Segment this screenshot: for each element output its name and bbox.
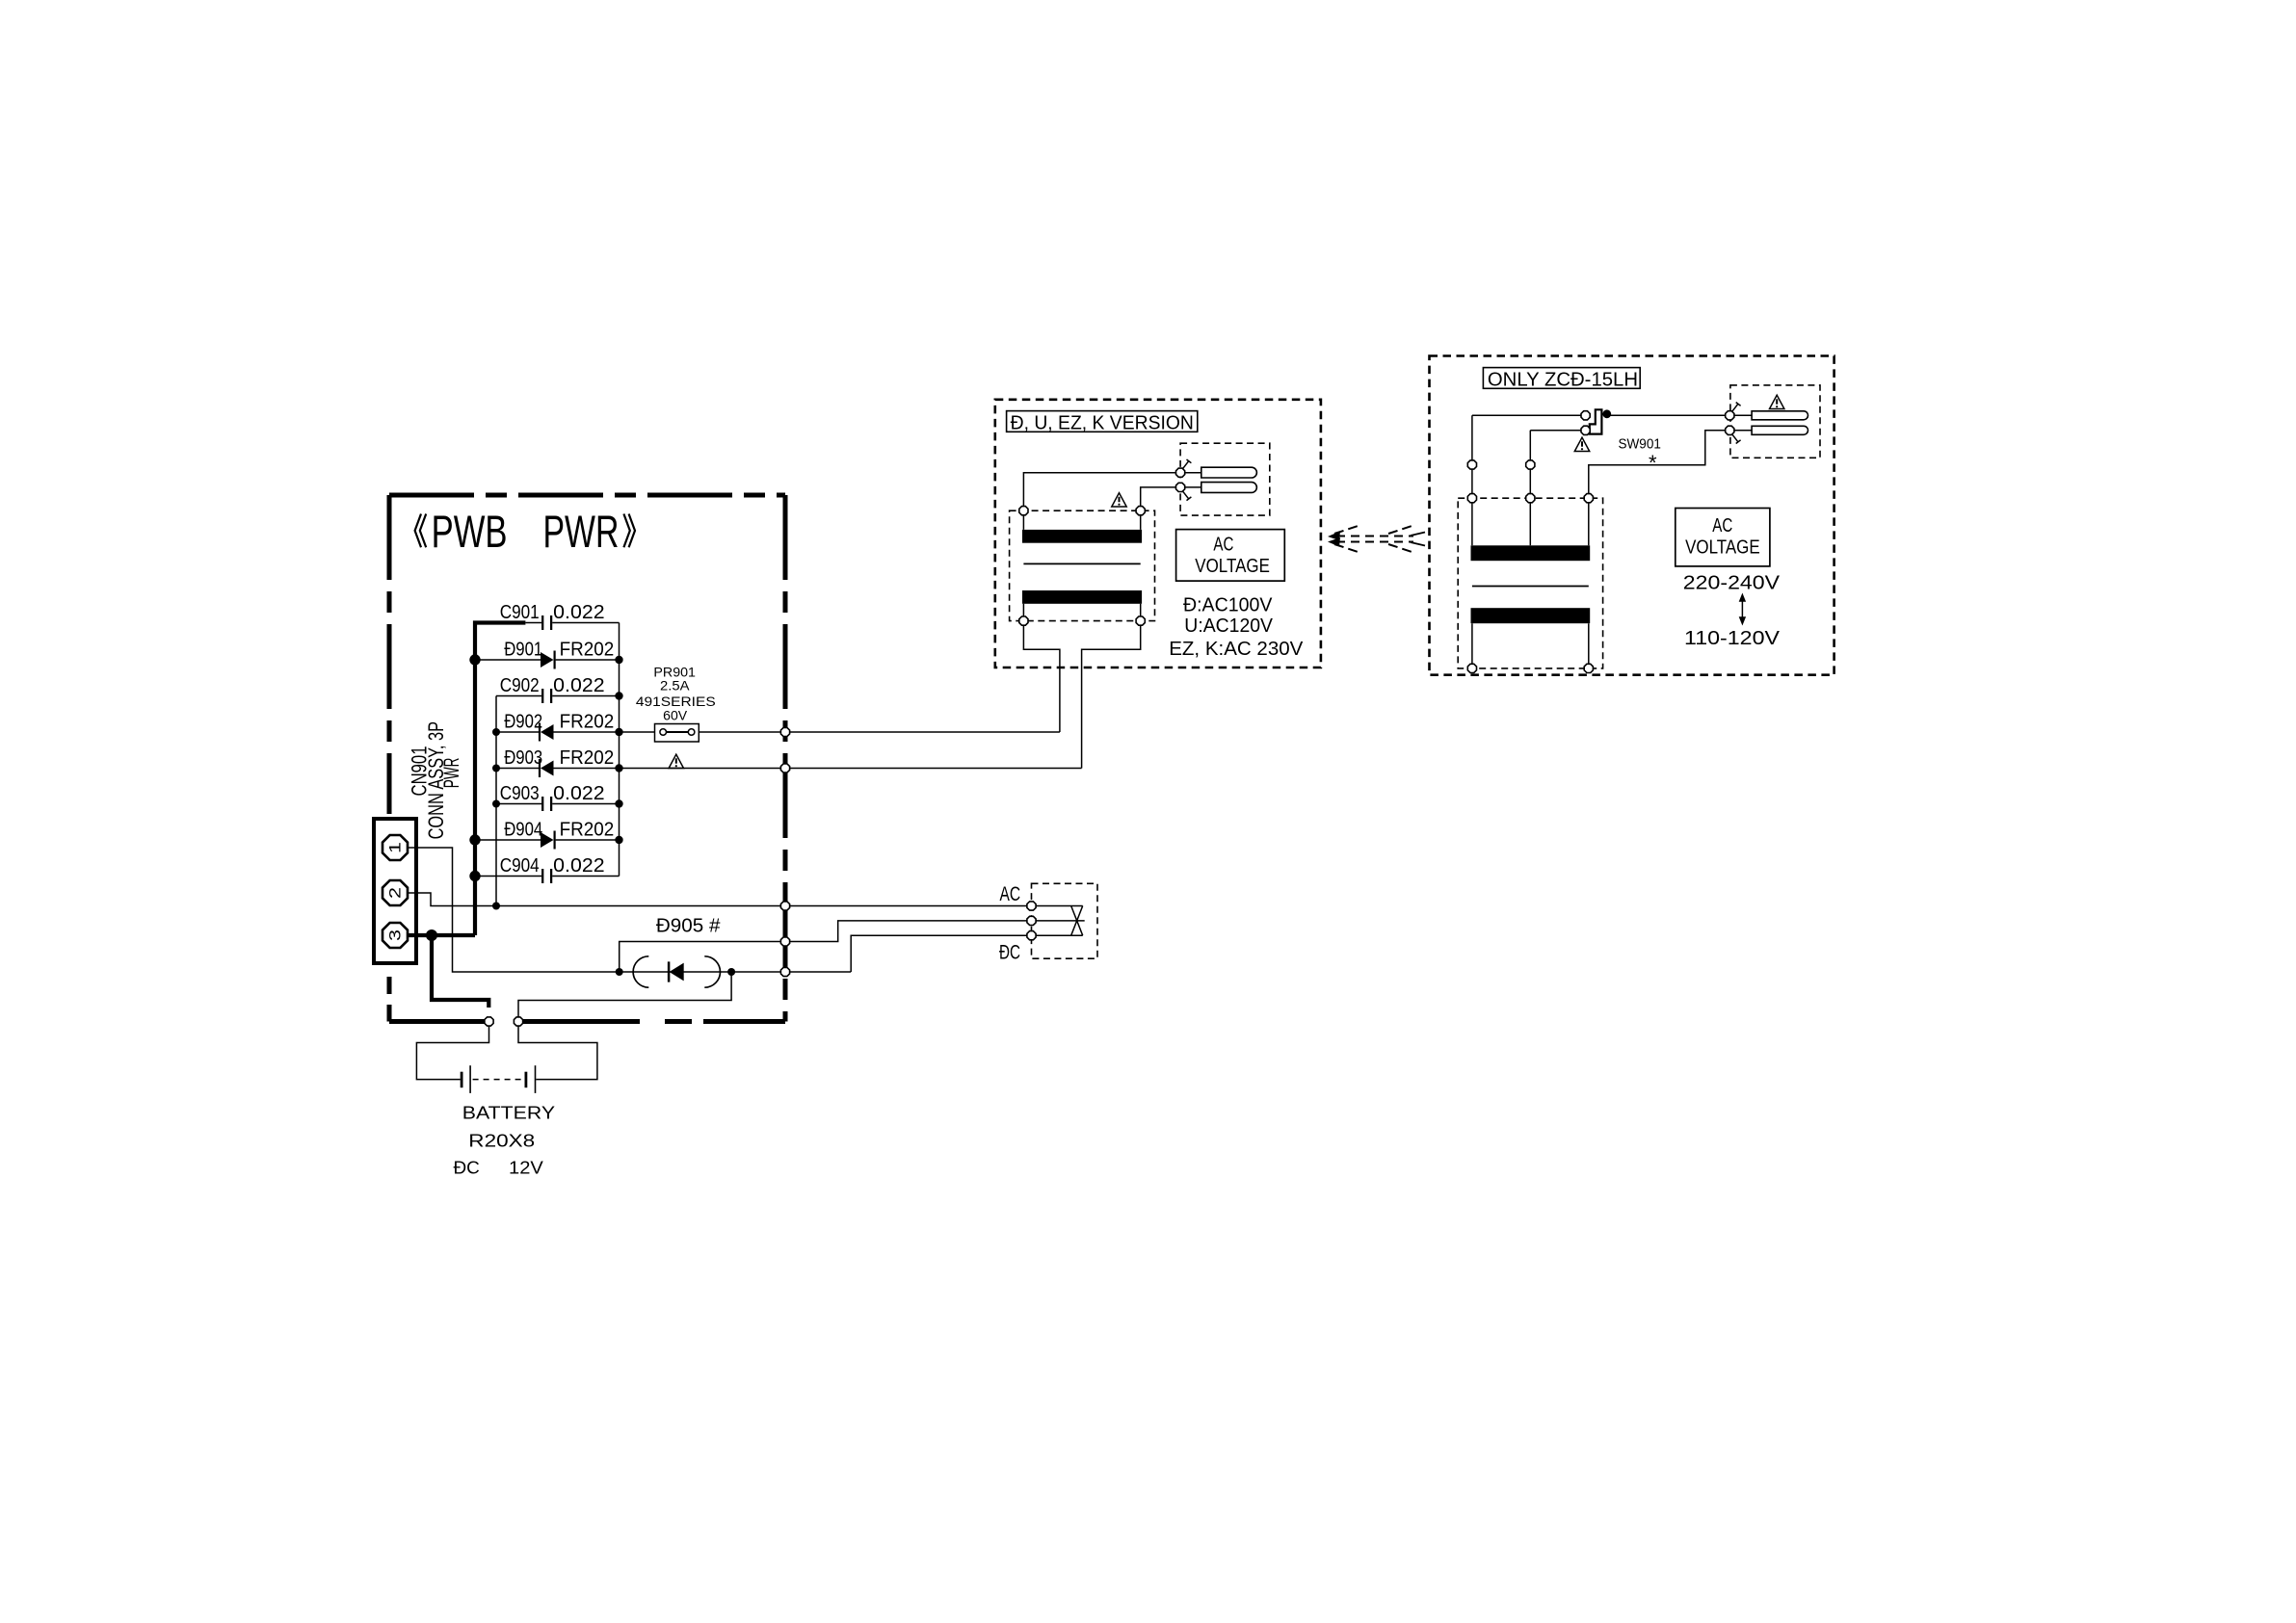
pin 3 of CN901 [383, 923, 408, 948]
wire second rail (left thin rail of ladder) [495, 696, 497, 906]
version box title D,U,EZ,K VERSION [1007, 411, 1198, 434]
svg-text:PWR: PWR [543, 507, 620, 558]
svg-text:C901: C901 [500, 601, 540, 623]
wire plug neutral to transformer T1 primary right [1141, 487, 1176, 507]
svg-text:60V: 60V [663, 707, 688, 722]
svg-text:2.5A: 2.5A [660, 677, 690, 693]
double arrow between voltage ranges [1739, 593, 1746, 626]
diode D905 # [616, 915, 852, 988]
transformer T2 (dashed outline) [1458, 494, 1602, 673]
pin 1 of CN901 [383, 835, 408, 860]
svg-text:3: 3 [386, 929, 405, 941]
board outline PWB PWR (dash-dot border) [389, 495, 785, 1022]
node border crossing D905 line [780, 967, 789, 976]
svg-text:0.022: 0.022 [553, 674, 604, 696]
node connector octagons on T2 primary risers [1467, 460, 1476, 469]
warning symbol in ZCD plug box [1770, 395, 1784, 408]
arrow between version box and ZCD box (dashed double arrow) [1328, 526, 1425, 553]
svg-text:ĐC: ĐC [454, 1159, 480, 1178]
wire transformer T2 primary tap up to switch contact 2 [1530, 431, 1581, 494]
svg-text:Đ904: Đ904 [504, 819, 542, 841]
wire D905 cathode side to DC jack outer contact [851, 935, 1027, 972]
wire D905 cathode return to battery plus terminal [518, 972, 731, 1018]
AC VOLTAGE box (ZCD) [1676, 509, 1770, 566]
svg-text:C902: C902 [500, 674, 540, 696]
CN901 label CONN ASSY, 3P PWR (rotated) [408, 721, 464, 839]
svg-text:R20X8: R20X8 [468, 1131, 535, 1150]
wire thick bus from pin3 up the ladder (left rail) [409, 623, 525, 936]
svg-text:Đ:AC100V: Đ:AC100V [1183, 594, 1273, 616]
ZCD box outline (dashed) [1430, 356, 1834, 675]
capacitor C904 0.022 [469, 854, 619, 883]
svg-text:ONLY ZCĐ-15LH: ONLY ZCĐ-15LH [1488, 368, 1638, 390]
wire battery left lead [416, 1026, 488, 1079]
wire transformer T2 primary left up to switch contact 1 [1472, 415, 1581, 493]
AC plug (dashed box) of ZCD [1726, 385, 1820, 458]
svg-text:2: 2 [386, 887, 405, 899]
wire battery right lead [518, 1026, 597, 1079]
svg-text:C904: C904 [500, 854, 540, 877]
wire transformer T1 secondary right down to D903 line [1082, 625, 1141, 768]
connector CN901 body [374, 819, 416, 963]
svg-text:Đ902: Đ902 [504, 711, 542, 733]
svg-text:AC: AC [1000, 883, 1021, 905]
ZCD box title ONLY ZCD-15LH [1483, 368, 1640, 391]
junction second rail to AC line [492, 903, 500, 910]
AC VOLTAGE box (version) [1176, 530, 1285, 582]
svg-text:Đ, U, EZ, K VERSION: Đ, U, EZ, K VERSION [1011, 412, 1194, 434]
fuse PR901 2.5A 491SERIES 60V [620, 664, 1060, 742]
battery BATTERY R20X8 DC 12V [454, 1065, 556, 1177]
svg-text:PWR: PWR [439, 758, 463, 789]
board title PWB PWR [415, 507, 635, 558]
AC/DC jack (dashed) [999, 883, 1097, 964]
wire right rail of ladder [619, 623, 620, 877]
node border crossing D903 line [780, 764, 789, 772]
svg-text:*: * [1649, 451, 1657, 475]
wire switch output to plug live [1607, 414, 1726, 416]
warning symbol below SW901 [1574, 437, 1589, 451]
wire plug neutral down to transformer T2 primary right [1589, 431, 1726, 494]
diode D902 FR202 [492, 711, 623, 742]
diode D903 FR202 [492, 746, 623, 777]
diode D904 FR202 [469, 819, 622, 850]
transformer T1 (power transformer, dashed outline) [1010, 507, 1155, 626]
svg-text:AC: AC [1712, 514, 1732, 537]
switch SW901 * (voltage selector) [1581, 409, 1661, 475]
svg-text:Đ905 #: Đ905 # [656, 915, 721, 937]
AC plug (dashed box) of version [1176, 443, 1270, 515]
node battery terminal right (octagon on border) [514, 1017, 522, 1026]
capacitor C902 0.022 [496, 674, 623, 703]
svg-text:C903: C903 [500, 782, 540, 804]
wire plug live to transformer T1 primary left [1023, 473, 1175, 507]
svg-text:0.022: 0.022 [553, 782, 604, 804]
svg-text:AC: AC [1213, 534, 1233, 556]
svg-text:Đ903: Đ903 [504, 746, 542, 769]
svg-text:PWB: PWB [432, 507, 508, 558]
svg-text:VOLTAGE: VOLTAGE [1195, 555, 1270, 577]
svg-text:110-120V: 110-120V [1684, 627, 1780, 649]
version voltage list [1169, 594, 1304, 661]
svg-text:FR202: FR202 [560, 711, 615, 733]
wire transformer T1 secondary left down to fuse line [1023, 625, 1060, 732]
svg-text:ĐC: ĐC [999, 942, 1020, 964]
warning symbol below fuse [669, 754, 683, 768]
svg-text:220-240V: 220-240V [1683, 572, 1781, 594]
warning symbol near version plug [1112, 493, 1126, 507]
version box outline (dashed) [995, 400, 1321, 668]
node border crossing AC line [780, 902, 789, 910]
node battery terminal left (octagon on border) [485, 1017, 493, 1026]
capacitor C901 0.022 [500, 601, 620, 630]
wire D905 anode branch to DC jack centre contact [620, 921, 1027, 972]
diode D901 FR202 [469, 639, 622, 669]
svg-text:FR202: FR202 [560, 819, 615, 841]
capacitor C903 0.022 [492, 782, 623, 811]
pin 2 of CN901 [383, 880, 408, 905]
svg-text:0.022: 0.022 [553, 854, 604, 877]
svg-text:BATTERY: BATTERY [462, 1104, 555, 1123]
svg-text:EZ, K:AC 230V: EZ, K:AC 230V [1169, 638, 1304, 660]
svg-text:12V: 12V [509, 1159, 543, 1178]
node border crossing DC centre line [780, 937, 789, 946]
node border crossing D902 line [780, 727, 789, 736]
svg-text:0.022: 0.022 [553, 601, 604, 623]
svg-text:1: 1 [386, 842, 405, 853]
wire pin2 to AC jack (AC line) [409, 893, 1027, 906]
svg-text:U:AC120V: U:AC120V [1184, 615, 1273, 637]
junction pin3 node [426, 929, 437, 941]
svg-text:Đ901: Đ901 [504, 639, 542, 661]
svg-text:VOLTAGE: VOLTAGE [1685, 537, 1760, 559]
wire thick from pin3 down to battery terminal [432, 935, 488, 1008]
wire pin1 to D905 anode [409, 848, 620, 972]
svg-text:FR202: FR202 [560, 639, 615, 661]
svg-text:FR202: FR202 [560, 746, 615, 769]
wire D903 row to version box [620, 768, 1082, 770]
